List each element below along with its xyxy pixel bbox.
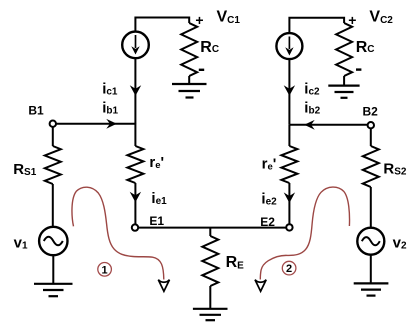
svg-text:B2: B2 [363, 104, 379, 118]
resistor RE [202, 236, 218, 286]
wire re2 to E2 [288, 183, 290, 224]
svg-text:+: + [195, 12, 203, 28]
resistor RS1 [45, 146, 61, 184]
wire RE to ground [209, 286, 211, 309]
svg-text:+: + [348, 12, 356, 28]
arrow ic2 on wire [284, 85, 295, 96]
resistor re1 [127, 146, 143, 183]
wire top-left: current source I1 top to RC1 top [135, 18, 189, 32]
arrow ic1 on wire [130, 85, 141, 96]
wire B2 down to RS2 [370, 129, 372, 147]
wire rail E1 to E2 [138, 227, 286, 229]
ground under v1 [34, 284, 73, 296]
circled 2 [282, 261, 296, 275]
wire B1 to node junction [56, 123, 135, 125]
arrowhead curve 2 [255, 280, 266, 292]
red flow curve 2 [260, 187, 349, 279]
label minus RC2 [356, 68, 361, 70]
wire v2 to ground [370, 255, 372, 284]
label minus RC1 [199, 69, 204, 71]
resistor RS2 [363, 146, 379, 187]
red flow curve 1 [72, 187, 164, 279]
svg-text:B1: B1 [28, 104, 44, 118]
wire: I1 bottom down to node at B-rail [134, 58, 136, 124]
source v1 [39, 227, 67, 255]
ground under v2 [354, 283, 389, 295]
wire junction down to re1 [134, 124, 136, 146]
node B2 [368, 122, 374, 128]
resistor RC2 [336, 23, 352, 76]
svg-text:1: 1 [102, 264, 108, 276]
wire junction down to re2 [288, 125, 290, 146]
source v2 [357, 228, 384, 255]
current source I1 [122, 32, 149, 59]
wire top-right: current source I2 top to RC2 top [289, 18, 344, 34]
wire: I2 bottom down to node at B-rail [288, 59, 290, 125]
wire v1 to ground [52, 255, 54, 284]
wire RC2 to ground [343, 76, 345, 86]
node B1 [50, 121, 56, 127]
svg-text:E1: E1 [149, 214, 164, 228]
ground under RE [193, 309, 228, 320]
ground under RC2 [328, 86, 359, 98]
wire rail to RE [209, 228, 211, 236]
resistor RC1 [181, 23, 197, 76]
arrow ie1 on wire [130, 192, 141, 203]
wire RS2 to v2 [370, 187, 372, 228]
arrow ie2 on wire [284, 192, 295, 203]
wire RS1 to v1 [52, 184, 54, 227]
wire B2 to node junction [289, 124, 367, 126]
wire B1 down to RS1 [52, 127, 54, 146]
resistor re2 [281, 146, 297, 183]
wire RC1 to ground [188, 76, 190, 84]
svg-text:2: 2 [286, 263, 292, 275]
node E2 [286, 224, 292, 230]
svg-text:E2: E2 [260, 215, 275, 229]
current source I2 [276, 33, 302, 59]
ground under RC1 [172, 84, 207, 98]
arrow ib2 on wire [304, 120, 315, 130]
arrow ib1 on wire [106, 119, 117, 129]
node E1 [132, 224, 138, 230]
circled 1 [98, 263, 112, 277]
arrowhead curve 1 [158, 280, 169, 292]
wire re1 to E1 [134, 183, 136, 224]
